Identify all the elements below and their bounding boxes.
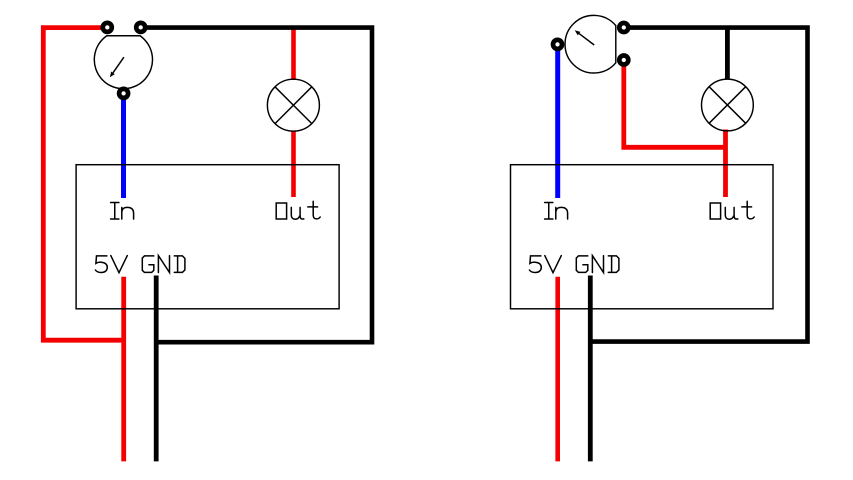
lamp LA2 cross xyxy=(709,87,746,124)
label Out left xyxy=(276,201,320,219)
terminal dot R1 pin 3 xyxy=(136,23,145,32)
wire red 5V supply loop left circuit xyxy=(43,28,123,341)
wire blue wiper to In left circuit xyxy=(121,93,126,199)
label In right xyxy=(545,203,568,220)
wire red lamp feed from black bus left circuit xyxy=(291,28,296,80)
terminal dot R2 pin 3 xyxy=(619,56,628,65)
wire red 5V vertical left circuit xyxy=(121,277,126,462)
lamp LA2 body xyxy=(702,79,754,131)
wire red lamp to Out right circuit xyxy=(723,130,728,198)
wire black GND top bus right circuit xyxy=(590,28,807,342)
potentiometer R2 wiper arrow xyxy=(579,34,594,45)
lamp LA1 cross xyxy=(275,87,312,124)
terminal dot R1 pin 1 xyxy=(103,23,112,32)
wire red pot to lamp right circuit xyxy=(624,60,726,147)
label 5V GND left xyxy=(95,256,184,273)
potentiometer R1 wiper arrow xyxy=(113,57,124,73)
label Out right xyxy=(710,201,754,219)
label In left xyxy=(111,203,134,220)
wire red lamp to Out left circuit xyxy=(291,130,296,197)
label 5V GND right xyxy=(529,256,619,273)
potentiometer R1 body xyxy=(94,36,152,89)
controller box U1 left circuit xyxy=(76,165,339,309)
terminal dot R2 pin 1 xyxy=(619,23,628,32)
wire black GND top bus left circuit xyxy=(141,28,372,343)
potentiometer R2 body xyxy=(565,15,616,73)
controller box U2 right circuit xyxy=(511,165,774,309)
wire red 5V vertical right circuit xyxy=(555,277,560,462)
lamp LA1 body xyxy=(267,79,319,131)
wire black lamp feed right circuit xyxy=(725,28,730,80)
terminal dot R1 wiper pin 2 xyxy=(119,89,128,98)
wire black GND vertical left circuit xyxy=(154,276,159,462)
terminal dot R2 wiper pin 2 xyxy=(553,40,562,49)
wire blue wiper to In right circuit xyxy=(555,44,560,198)
wire black GND vertical right circuit xyxy=(588,276,593,462)
